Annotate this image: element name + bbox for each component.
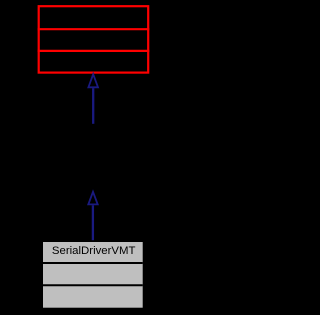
inheritance arrow 1: hollow triangle head pointing at red box <box>88 74 98 87</box>
inheritance arrow 2: hollow triangle head (to hidden middle node) <box>88 192 97 205</box>
node: SerialDriverVMT box border (black) <box>42 241 145 309</box>
inheritance arrow 1: wire/line segment <box>92 88 94 124</box>
node: SerialDriverVMT gray fill (3 compartments) <box>43 242 143 308</box>
label: SerialDriverVMT <box>52 245 136 257</box>
red box divider 1 <box>38 28 150 30</box>
svg-text:SerialDriverVMT: SerialDriverVMT <box>52 245 136 257</box>
inheritance arrow 2: wire/line segment down to SerialDriverVMT <box>92 205 94 240</box>
gray box divider 1 <box>43 262 143 264</box>
gray box divider 2 <box>43 284 143 286</box>
red box divider 2 <box>38 50 150 52</box>
node: truncated base class (red outline, 3 compartments) <box>39 6 149 72</box>
